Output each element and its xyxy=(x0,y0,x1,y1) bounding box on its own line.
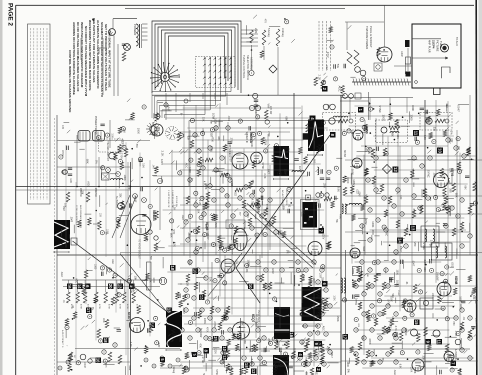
svg-text:270V: 270V xyxy=(230,138,234,144)
svg-text:AGC: AGC xyxy=(393,370,397,375)
svg-text:18: 18 xyxy=(170,265,175,270)
svg-text:1000: 1000 xyxy=(346,177,350,184)
svg-text:47K: 47K xyxy=(198,343,202,348)
svg-text:100K: 100K xyxy=(214,118,218,124)
svg-text:.0047: .0047 xyxy=(83,362,86,369)
svg-text:405: 405 xyxy=(61,125,64,130)
svg-text:.0047: .0047 xyxy=(254,321,257,328)
svg-text:SELECTOR SWITCH: SELECTOR SWITCH xyxy=(246,55,250,80)
svg-text:12: 12 xyxy=(251,369,256,374)
svg-text:47K: 47K xyxy=(286,148,288,153)
svg-text:150K: 150K xyxy=(396,270,399,276)
svg-text:220: 220 xyxy=(438,147,442,152)
svg-text:.047: .047 xyxy=(419,207,423,213)
svg-text:A PHOTOFACT S: A PHOTOFACT S xyxy=(61,330,64,348)
svg-text:15: 15 xyxy=(414,320,419,325)
svg-text:2 1/4P PULSE OF: 2 1/4P PULSE OF xyxy=(167,190,169,208)
svg-text:.022: .022 xyxy=(62,206,66,212)
svg-text:AGC: AGC xyxy=(60,272,63,278)
svg-text:B+: B+ xyxy=(327,347,331,351)
svg-text:120V: 120V xyxy=(322,234,325,240)
svg-text:16: 16 xyxy=(96,358,101,363)
svg-text:100K: 100K xyxy=(332,295,334,301)
svg-text:1meg: 1meg xyxy=(172,366,176,373)
svg-text:470K: 470K xyxy=(119,304,121,310)
svg-text:10K: 10K xyxy=(448,168,452,173)
svg-text:68K: 68K xyxy=(284,116,288,121)
svg-text:4.7K: 4.7K xyxy=(447,178,451,184)
svg-text:TO/FROM POWER: TO/FROM POWER xyxy=(365,26,369,49)
svg-text:6.8K: 6.8K xyxy=(250,359,254,365)
svg-text:18: 18 xyxy=(244,363,249,368)
svg-text:1/2W: 1/2W xyxy=(212,113,216,120)
svg-text:6GN8: 6GN8 xyxy=(454,276,458,285)
svg-text:120V: 120V xyxy=(129,287,133,294)
svg-text:B+ BOOST: B+ BOOST xyxy=(115,196,118,209)
svg-text:560: 560 xyxy=(149,256,152,261)
svg-text:47K: 47K xyxy=(264,19,267,24)
svg-text:10: 10 xyxy=(222,346,227,351)
svg-text:CONTROL WIRING ON CHASSIS GROU: CONTROL WIRING ON CHASSIS GROUND xyxy=(68,50,72,113)
svg-text:3.9K: 3.9K xyxy=(69,178,72,183)
svg-text:1ST VIDEO: 1ST VIDEO xyxy=(228,143,232,157)
svg-text:.047: .047 xyxy=(361,336,365,342)
svg-text:270V: 270V xyxy=(210,146,214,152)
svg-text:68K: 68K xyxy=(463,186,465,191)
svg-text:470K: 470K xyxy=(371,230,373,236)
svg-text:10K: 10K xyxy=(399,195,402,200)
svg-text:120V: 120V xyxy=(160,159,163,165)
svg-text:100K: 100K xyxy=(137,128,141,134)
svg-text:150K: 150K xyxy=(336,316,340,322)
svg-text:1meg: 1meg xyxy=(355,298,359,306)
svg-text:47K: 47K xyxy=(367,102,369,106)
svg-text:SET TO PRODUCE 30 VOLTS PEAK T: SET TO PRODUCE 30 VOLTS PEAK TO PEAK xyxy=(104,24,108,91)
svg-text:VHF: VHF xyxy=(459,304,463,310)
svg-text:560: 560 xyxy=(178,337,182,342)
svg-text:33K: 33K xyxy=(209,277,213,282)
svg-text:100K: 100K xyxy=(319,273,321,279)
svg-text:ARROWS ON CONTROLS INDICATE CL: ARROWS ON CONTROLS INDICATE CLOCKWISE xyxy=(72,22,76,95)
svg-text:VHF: VHF xyxy=(413,242,417,248)
svg-text:SCHEMATIC DIAGRAM NOTED IN VOL: SCHEMATIC DIAGRAM NOTED IN VOLTS PEAK TO xyxy=(100,22,104,98)
svg-text:120V: 120V xyxy=(315,199,319,206)
svg-text:1/2W: 1/2W xyxy=(283,371,285,375)
svg-text:10K: 10K xyxy=(102,318,106,323)
svg-text:TUNING CONTROL: TUNING CONTROL xyxy=(242,55,246,79)
svg-text:2.2K: 2.2K xyxy=(318,75,322,81)
svg-text:ALTERNATE VALUES SHOWN ON SCHE: ALTERNATE VALUES SHOWN ON SCHEMATIC xyxy=(96,20,100,89)
svg-text:13: 13 xyxy=(167,308,172,313)
svg-text:.022: .022 xyxy=(234,192,236,197)
svg-text:17: 17 xyxy=(343,334,348,339)
svg-text:2.2K: 2.2K xyxy=(173,205,177,211)
svg-text:2.2K: 2.2K xyxy=(429,240,433,246)
svg-text:.001: .001 xyxy=(188,232,192,238)
svg-text:.047: .047 xyxy=(201,158,203,163)
svg-text:330: 330 xyxy=(452,321,455,326)
svg-text:.01: .01 xyxy=(288,204,292,208)
svg-text:.0047: .0047 xyxy=(457,105,461,113)
svg-text:68K: 68K xyxy=(209,120,211,124)
svg-text:68K: 68K xyxy=(170,233,174,238)
svg-text:POWER: POWER xyxy=(133,24,137,36)
svg-text:13: 13 xyxy=(118,284,123,289)
svg-text:10K: 10K xyxy=(246,214,249,219)
svg-text:470K: 470K xyxy=(206,327,208,333)
svg-text:SYNC: SYNC xyxy=(427,170,431,178)
svg-text:270V: 270V xyxy=(448,137,452,143)
svg-text:470K: 470K xyxy=(317,349,320,355)
svg-text:120V: 120V xyxy=(364,146,368,152)
svg-text:1000: 1000 xyxy=(152,277,154,283)
svg-text:.022: .022 xyxy=(121,139,124,144)
svg-text:255VDC: 255VDC xyxy=(94,188,97,197)
svg-text:VHF: VHF xyxy=(134,197,138,203)
svg-text:470K: 470K xyxy=(107,304,109,310)
svg-text:330: 330 xyxy=(432,127,435,132)
svg-text:270V: 270V xyxy=(182,308,186,315)
svg-text:33K: 33K xyxy=(80,190,82,194)
svg-text:120V: 120V xyxy=(438,287,441,293)
svg-text:10K: 10K xyxy=(396,134,399,139)
svg-text:1000: 1000 xyxy=(410,114,414,121)
svg-text:33K: 33K xyxy=(423,267,427,272)
svg-text:SYNC: SYNC xyxy=(422,242,426,250)
svg-text:.001: .001 xyxy=(227,116,231,122)
svg-text:68K: 68K xyxy=(454,193,458,198)
svg-text:AGC: AGC xyxy=(111,259,114,264)
svg-text:SYNC: SYNC xyxy=(474,296,478,304)
svg-text:WAVEFORMS TAKEN WITH WIDE BAND: WAVEFORMS TAKEN WITH WIDE BAND SCOPE xyxy=(88,20,92,91)
svg-text:PAGE 2: PAGE 2 xyxy=(6,3,13,26)
svg-text:68K: 68K xyxy=(391,132,395,137)
svg-text:100K: 100K xyxy=(123,175,127,181)
svg-text:6CD7: 6CD7 xyxy=(127,312,131,320)
svg-text:5%: 5% xyxy=(347,369,351,374)
svg-text:TO AUX: TO AUX xyxy=(455,37,458,46)
svg-text:PLUG & SOCKET: PLUG & SOCKET xyxy=(369,26,373,48)
svg-text:SYNC: SYNC xyxy=(385,229,388,236)
svg-text:16: 16 xyxy=(67,284,72,289)
svg-text:1000: 1000 xyxy=(391,316,393,322)
svg-text:.047: .047 xyxy=(152,164,155,169)
svg-text:33K: 33K xyxy=(187,136,190,141)
svg-text:470K: 470K xyxy=(98,304,100,310)
svg-text:NO CIRCUIT VOLTAGE MEASURED WI: NO CIRCUIT VOLTAGE MEASURED WITH VTVM xyxy=(84,26,88,97)
svg-text:270V: 270V xyxy=(364,219,367,225)
svg-text:470K: 470K xyxy=(211,137,213,143)
svg-text:AGC: AGC xyxy=(338,86,342,92)
svg-text:270V: 270V xyxy=(120,153,124,159)
svg-text:B+: B+ xyxy=(327,105,331,109)
svg-text:AGC: AGC xyxy=(185,163,189,169)
svg-text:.047: .047 xyxy=(187,260,191,266)
svg-text:270V: 270V xyxy=(229,156,231,162)
svg-text:5.1meg: 5.1meg xyxy=(267,28,271,37)
svg-text:18: 18 xyxy=(103,338,108,343)
svg-text:120V: 120V xyxy=(214,348,217,354)
svg-text:6.8K: 6.8K xyxy=(300,340,304,346)
svg-text:6.8K: 6.8K xyxy=(399,364,401,369)
svg-text:12K: 12K xyxy=(186,282,190,287)
svg-text:16: 16 xyxy=(289,332,294,337)
svg-text:270V: 270V xyxy=(213,321,217,327)
svg-text:470K: 470K xyxy=(135,304,137,310)
svg-text:.047: .047 xyxy=(267,168,271,174)
svg-text:SYNC: SYNC xyxy=(378,105,382,113)
svg-text:10: 10 xyxy=(193,269,198,274)
svg-text:TUBE: TUBE xyxy=(439,41,443,48)
svg-text:470K: 470K xyxy=(79,304,81,310)
svg-text:AGC: AGC xyxy=(322,326,325,331)
svg-text:3.9K: 3.9K xyxy=(111,133,113,138)
svg-text:100K: 100K xyxy=(410,367,412,373)
svg-text:1000: 1000 xyxy=(351,169,355,176)
svg-text:FOR SIGNAL INPUT AT PICTURE TU: FOR SIGNAL INPUT AT PICTURE TUBE xyxy=(108,30,112,88)
svg-text:20: 20 xyxy=(108,284,113,289)
svg-text:AGC: AGC xyxy=(105,363,108,368)
svg-text:150K: 150K xyxy=(346,361,349,367)
svg-text:AGC: AGC xyxy=(87,181,91,187)
svg-text:1/2W: 1/2W xyxy=(400,51,402,57)
svg-text:.0047: .0047 xyxy=(70,216,73,223)
svg-text:47K: 47K xyxy=(470,291,472,295)
svg-text:33K: 33K xyxy=(119,193,122,198)
svg-text:10: 10 xyxy=(248,284,253,289)
svg-text:4.7K: 4.7K xyxy=(394,326,397,331)
svg-text:3.3meg: 3.3meg xyxy=(281,28,285,37)
svg-text:470K: 470K xyxy=(126,304,128,310)
svg-text:AGC: AGC xyxy=(302,275,306,281)
svg-text:SYNC: SYNC xyxy=(201,357,204,364)
svg-text:10K: 10K xyxy=(99,213,101,218)
svg-text:AGC: AGC xyxy=(74,278,77,283)
svg-text:1/2W: 1/2W xyxy=(199,332,202,338)
svg-text:470K: 470K xyxy=(230,180,233,186)
svg-text:2.2K: 2.2K xyxy=(160,151,164,157)
svg-text:2.2K: 2.2K xyxy=(198,200,202,206)
svg-text:2.2K: 2.2K xyxy=(474,318,478,324)
svg-text:5%: 5% xyxy=(335,219,337,222)
svg-text:2.2K: 2.2K xyxy=(442,173,446,179)
svg-text:.001: .001 xyxy=(314,371,316,375)
svg-text:SYNC: SYNC xyxy=(265,204,268,211)
svg-text:330: 330 xyxy=(448,188,452,193)
svg-text:POWER TRANS: POWER TRANS xyxy=(94,116,97,135)
svg-text:150K: 150K xyxy=(459,296,463,302)
svg-text:12K: 12K xyxy=(148,278,151,283)
svg-text:270V: 270V xyxy=(326,52,329,58)
svg-text:120V: 120V xyxy=(271,268,274,274)
svg-text:6.8K: 6.8K xyxy=(232,263,236,269)
svg-text:100K: 100K xyxy=(203,318,207,324)
svg-text:3.9K: 3.9K xyxy=(142,163,144,168)
svg-text:68K: 68K xyxy=(413,369,415,373)
svg-text:10K: 10K xyxy=(196,209,200,214)
svg-text:2.2K: 2.2K xyxy=(254,28,258,34)
svg-text:.001: .001 xyxy=(292,347,294,352)
svg-text:SYNC: SYNC xyxy=(386,299,389,306)
svg-text:220: 220 xyxy=(204,224,208,229)
svg-text:470K: 470K xyxy=(221,357,225,364)
svg-text:6CS6: 6CS6 xyxy=(343,150,347,157)
svg-text:17: 17 xyxy=(86,308,91,313)
svg-text:.022: .022 xyxy=(181,215,185,221)
svg-text:3.9K: 3.9K xyxy=(250,142,253,147)
svg-text:INDICATED 600 OHM SCHEMATIC DI: INDICATED 600 OHM SCHEMATIC DIAGRAM xyxy=(80,22,84,88)
svg-text:.0047: .0047 xyxy=(358,191,360,197)
svg-text:VHF: VHF xyxy=(128,185,132,191)
svg-text:1/2W: 1/2W xyxy=(283,169,286,175)
svg-text:21EP4: 21EP4 xyxy=(432,40,436,49)
svg-text:150K: 150K xyxy=(323,183,326,189)
svg-text:2.2K: 2.2K xyxy=(129,342,132,347)
svg-text:4HP PLNR: 4HP PLNR xyxy=(428,40,432,53)
svg-text:.047: .047 xyxy=(204,183,207,188)
svg-text:B+: B+ xyxy=(286,357,289,361)
svg-text:.001: .001 xyxy=(451,262,455,268)
svg-text:5%: 5% xyxy=(336,64,340,69)
svg-text:1000: 1000 xyxy=(260,229,262,235)
svg-text:VHF: VHF xyxy=(128,365,131,370)
svg-text:10K: 10K xyxy=(134,276,138,281)
svg-text:150K: 150K xyxy=(309,358,311,364)
svg-text:TO YOKE SOCKET: TO YOKE SOCKET xyxy=(138,239,140,260)
svg-text:120V: 120V xyxy=(454,355,456,361)
svg-text:330: 330 xyxy=(445,103,448,108)
svg-text:1000: 1000 xyxy=(396,280,400,287)
svg-text:SEE PARTS LIST FOR ALTERNATE V: SEE PARTS LIST FOR ALTERNATE VALUES xyxy=(92,18,96,82)
svg-text:.022: .022 xyxy=(325,304,329,310)
svg-text:SYNC: SYNC xyxy=(397,290,399,296)
svg-text:3.9K: 3.9K xyxy=(336,187,340,193)
svg-text:THERMAL SWITCH: THERMAL SWITCH xyxy=(106,141,109,162)
svg-text:10K: 10K xyxy=(457,146,459,151)
svg-text:SYNC: SYNC xyxy=(261,162,264,169)
svg-text:100K: 100K xyxy=(431,293,434,299)
svg-text:100K: 100K xyxy=(371,221,375,227)
svg-text:33K: 33K xyxy=(217,136,220,141)
svg-text:10K: 10K xyxy=(247,263,249,267)
svg-text:3.9K: 3.9K xyxy=(307,215,311,221)
svg-text:150K: 150K xyxy=(214,222,218,228)
svg-text:AGC: AGC xyxy=(325,65,328,70)
svg-text:47K: 47K xyxy=(338,214,342,219)
svg-text:100K: 100K xyxy=(166,341,168,347)
svg-text:3.9K: 3.9K xyxy=(241,321,244,326)
svg-text:PICTURE: PICTURE xyxy=(436,40,440,52)
svg-text:SYNC: SYNC xyxy=(215,369,217,375)
svg-text:270V: 270V xyxy=(399,246,402,252)
svg-text:1/2W: 1/2W xyxy=(298,166,302,173)
svg-text:DC NO VOLTAGE FOR MEASURED VAL: DC NO VOLTAGE FOR MEASURED VALUES OF xyxy=(76,22,80,92)
svg-text:11: 11 xyxy=(413,131,418,136)
svg-text:120V: 120V xyxy=(352,179,356,185)
svg-text:VHF: VHF xyxy=(362,246,365,251)
svg-text:33K: 33K xyxy=(366,273,368,277)
svg-text:1meg: 1meg xyxy=(352,268,356,275)
svg-text:33K: 33K xyxy=(202,117,206,122)
svg-text:100K: 100K xyxy=(382,115,386,122)
svg-text:VERT: VERT xyxy=(351,282,353,288)
svg-text:B+: B+ xyxy=(91,307,95,311)
svg-text:47K: 47K xyxy=(372,183,375,188)
svg-text:.0047: .0047 xyxy=(330,352,333,359)
